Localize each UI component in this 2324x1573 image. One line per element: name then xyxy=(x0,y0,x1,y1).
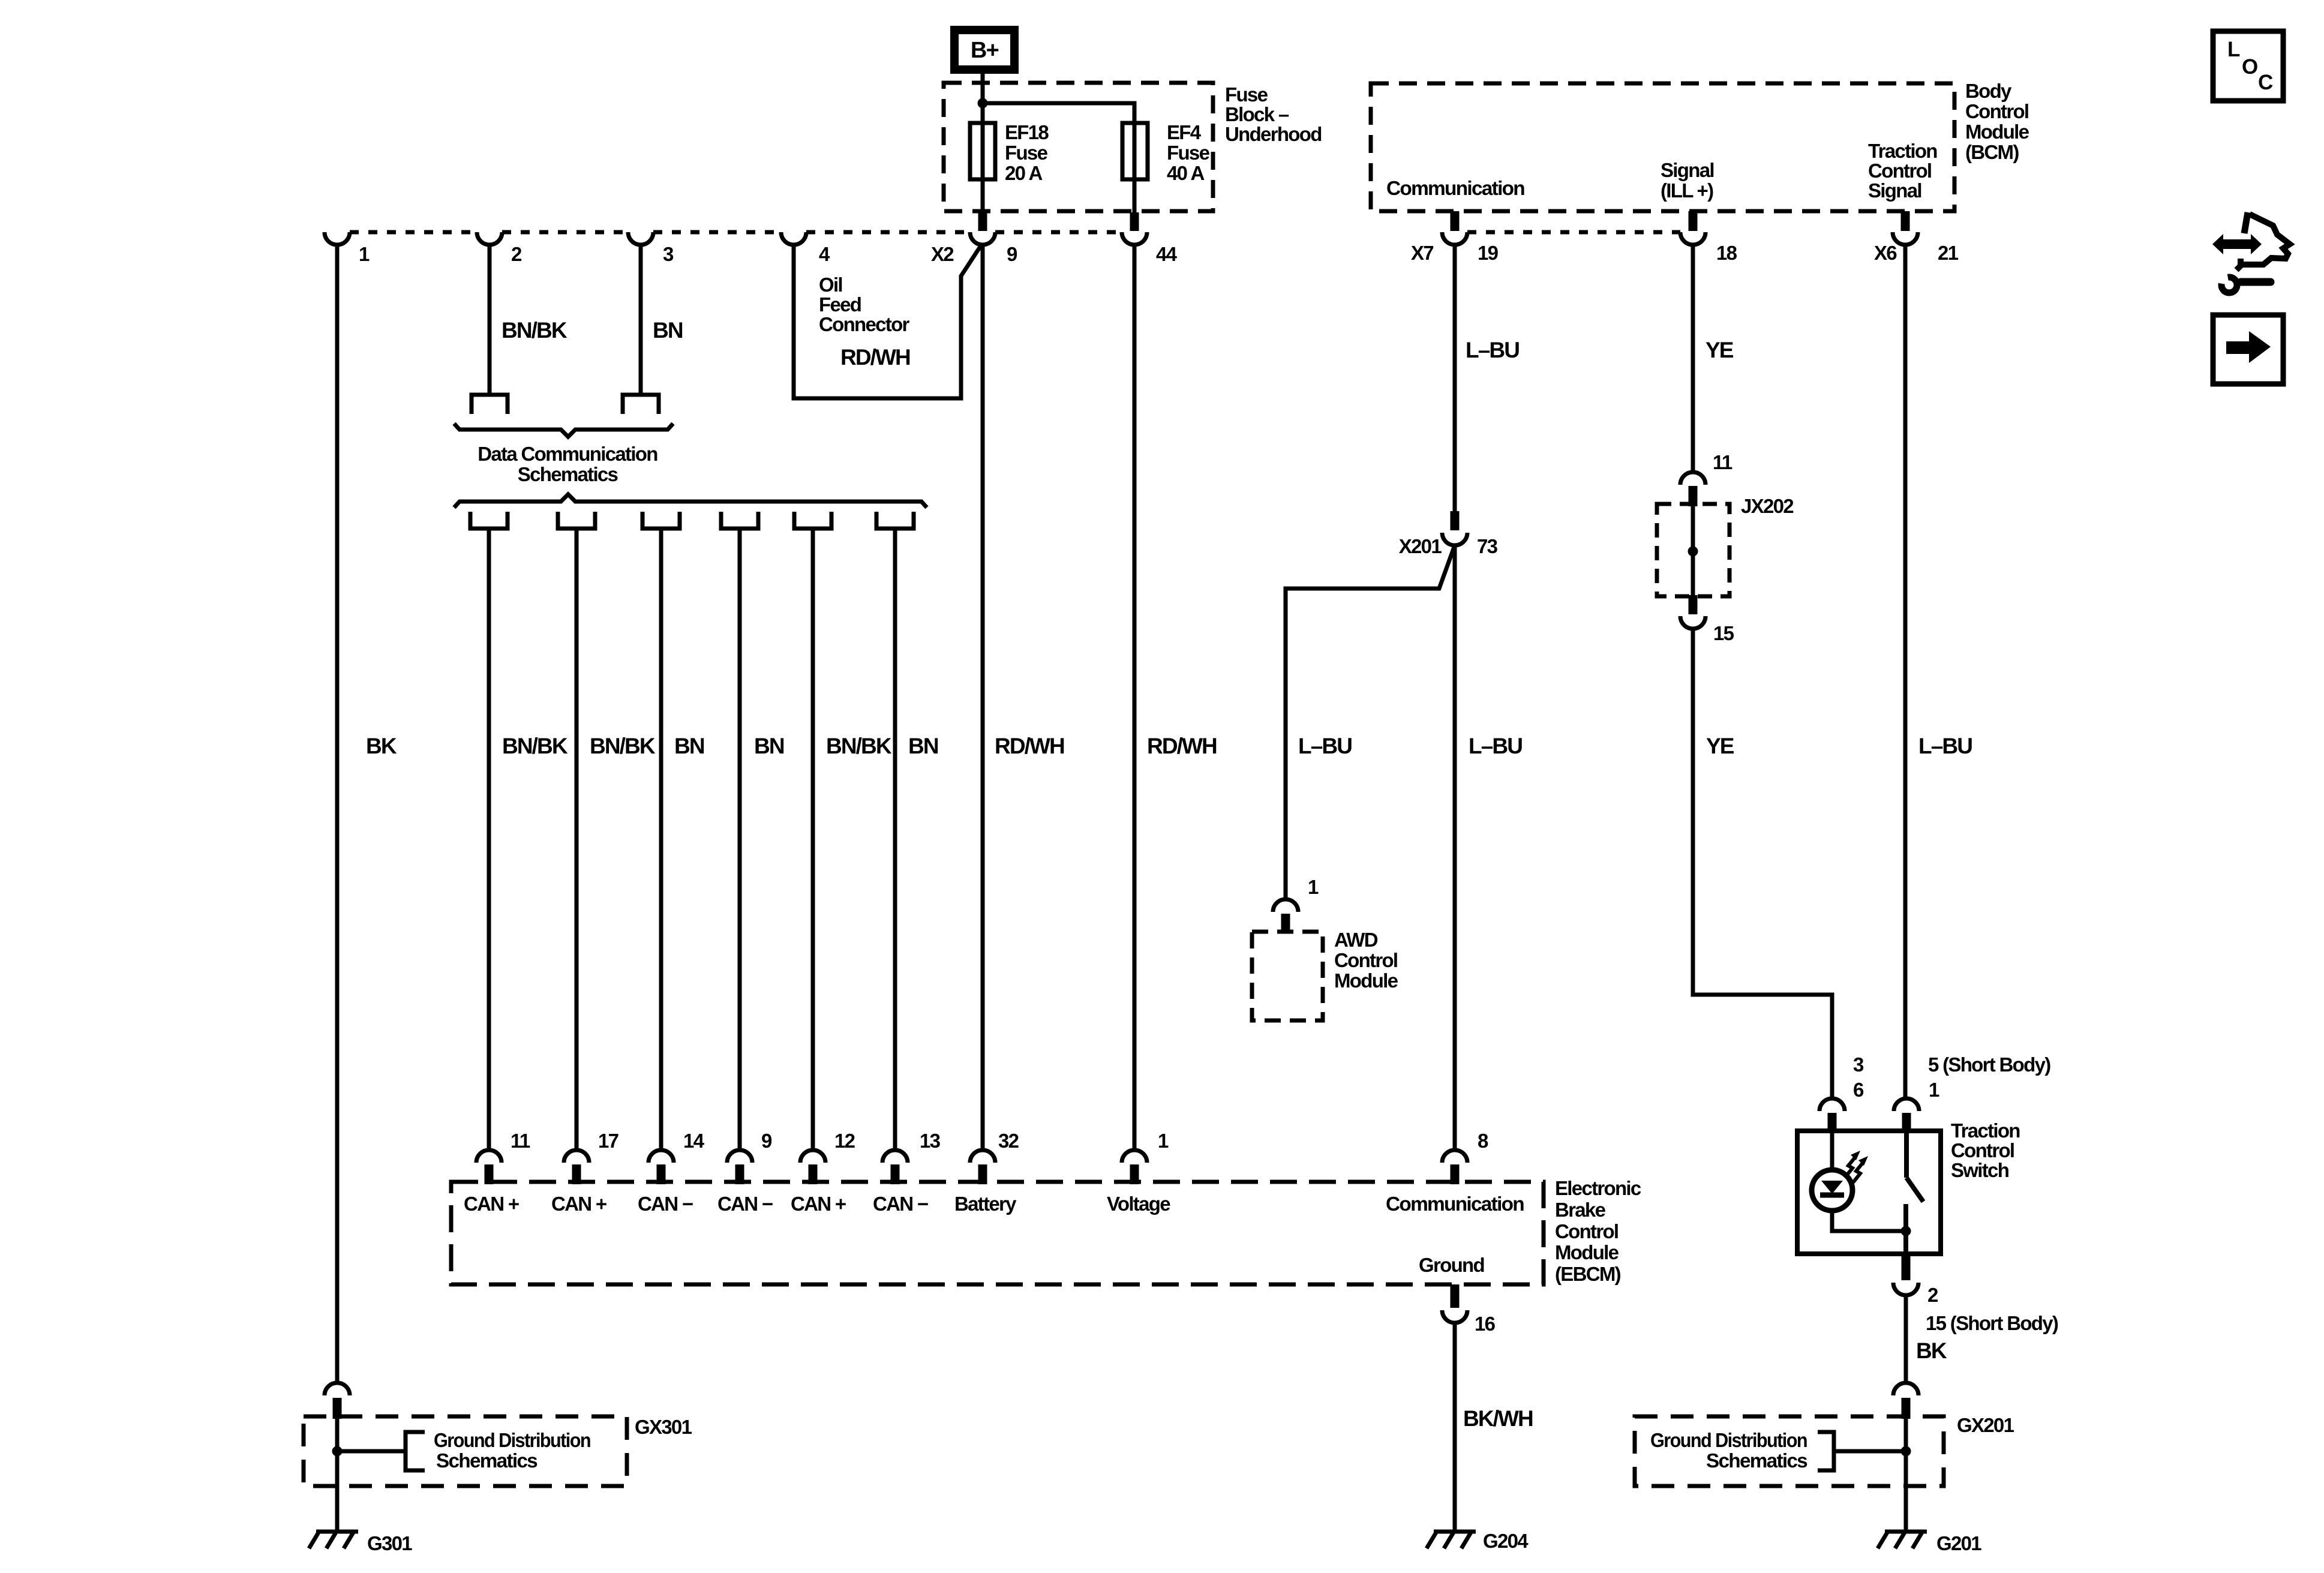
svg-text:BN/BK: BN/BK xyxy=(826,734,892,758)
switch contact blade xyxy=(1904,1131,1909,1178)
pin stub JX202 top xyxy=(1689,486,1698,506)
wire L-BU branch to AWD module xyxy=(1286,545,1455,899)
wire EF4 fuse to connector 9 xyxy=(1133,123,1137,231)
terminal lug CAN wire 17 xyxy=(558,512,595,529)
terminal lug CAN wire 9 xyxy=(721,512,758,529)
svg-text:16: 16 xyxy=(1475,1313,1496,1335)
node GX301 splice xyxy=(332,1446,343,1457)
svg-text:5 (Short Body): 5 (Short Body) xyxy=(1928,1053,2050,1076)
ground distribution GX301 dashed box xyxy=(304,1416,627,1486)
svg-text:X201: X201 xyxy=(1399,535,1442,557)
svg-text:3: 3 xyxy=(1853,1053,1864,1076)
svg-text:Schematics: Schematics xyxy=(518,463,618,485)
svg-text:BN: BN xyxy=(653,318,683,343)
wire BN to EBCM pin 9 xyxy=(738,529,742,1150)
svg-text:Ground: Ground xyxy=(1419,1254,1484,1276)
connector terminal 18 xyxy=(1680,232,1706,245)
pin stub GX301 xyxy=(333,1398,342,1419)
wire BN/BK pin2 to terminal xyxy=(488,245,492,395)
reference bracket GX301 xyxy=(406,1432,425,1470)
pin stub EBCM 11 xyxy=(485,1164,494,1184)
terminal lug wire3 xyxy=(623,395,659,414)
svg-text:EF18: EF18 xyxy=(1005,121,1049,143)
svg-text:BN: BN xyxy=(754,734,784,758)
terminal lug wire2 xyxy=(472,395,508,414)
svg-text:Ground Distribution: Ground Distribution xyxy=(434,1429,590,1451)
label data communication schematics xyxy=(478,443,657,485)
svg-text:Fuse: Fuse xyxy=(1167,142,1210,164)
svg-text:Block –: Block – xyxy=(1225,103,1289,125)
svg-text:11: 11 xyxy=(1713,451,1733,473)
svg-text:20 A: 20 A xyxy=(1005,162,1043,184)
pin stub EBCM 9 xyxy=(735,1164,744,1184)
connector terminal EBCM pin 17 xyxy=(564,1150,589,1163)
connector X201 terminal 73 xyxy=(1442,533,1467,545)
connector terminal switch 5-1 xyxy=(1894,1098,1919,1111)
svg-text:AWD: AWD xyxy=(1334,929,1378,951)
svg-text:(ILL +): (ILL +) xyxy=(1661,179,1713,202)
svg-text:18: 18 xyxy=(1716,242,1737,264)
label ground distribution schematics right xyxy=(1650,1429,1807,1472)
svg-text:BN/BK: BN/BK xyxy=(502,734,568,758)
svg-text:X6: X6 xyxy=(1874,242,1897,264)
connector terminal GX201 xyxy=(1893,1383,1918,1395)
svg-text:17: 17 xyxy=(598,1130,618,1152)
wire BN to EBCM pin 14 xyxy=(659,529,663,1150)
wire L-BU X201 to EBCM pin8 xyxy=(1453,545,1457,1150)
svg-text:Fuse: Fuse xyxy=(1005,142,1048,164)
svg-text:CAN −: CAN − xyxy=(717,1193,773,1215)
svg-text:G201: G201 xyxy=(1936,1532,1981,1554)
svg-text:12: 12 xyxy=(834,1130,855,1152)
svg-text:Feed: Feed xyxy=(819,293,861,316)
svg-text:Control: Control xyxy=(1555,1220,1618,1242)
svg-text:BN/BK: BN/BK xyxy=(502,318,568,343)
module connector dashed line pins 1-44 xyxy=(350,230,477,235)
pin stub EBCM 12 xyxy=(809,1164,818,1184)
svg-text:(BCM): (BCM) xyxy=(1965,141,2019,163)
LED light arrows xyxy=(1845,1151,1868,1182)
svg-text:Oil: Oil xyxy=(819,274,842,296)
wire YE pin18 to JX202 xyxy=(1691,245,1695,472)
wire RD/WH connector 44 to EBCM voltage xyxy=(1133,245,1137,1150)
body control module dashed box xyxy=(1371,83,1954,211)
ground distribution GX201 dashed box xyxy=(1635,1416,1944,1486)
svg-text:Module: Module xyxy=(1965,121,2029,143)
labels EBCM pin functions xyxy=(464,1193,1524,1215)
brace data communication lower xyxy=(454,494,927,508)
terminal lug CAN wire 13 xyxy=(876,512,914,529)
svg-text:Control: Control xyxy=(1951,1139,2014,1161)
svg-text:BK: BK xyxy=(366,734,397,758)
svg-text:JX202: JX202 xyxy=(1741,495,1794,517)
svg-text:Control: Control xyxy=(1965,100,2028,122)
wire L-BU pin21 to switch xyxy=(1903,245,1908,1098)
icon vehicle outline with arrow and wrench xyxy=(2212,212,2290,293)
svg-text:X2: X2 xyxy=(931,243,954,265)
svg-text:6: 6 xyxy=(1853,1079,1864,1101)
labels EBCM pin numbers xyxy=(511,1130,1488,1152)
wire junction to EF18 fuse xyxy=(981,103,985,231)
svg-text:19: 19 xyxy=(1478,242,1499,264)
svg-text:Module: Module xyxy=(1555,1241,1619,1263)
svg-text:Schematics: Schematics xyxy=(436,1449,537,1472)
pin stub EBCM 17 xyxy=(572,1164,581,1184)
wire YE JX202 to traction switch xyxy=(1693,629,1832,1098)
svg-text:BK/WH: BK/WH xyxy=(1463,1406,1533,1431)
wire switch contact to node xyxy=(1903,1204,1908,1254)
connector terminal EBCM pin 9 xyxy=(727,1150,752,1163)
connector terminal GX301 xyxy=(325,1383,350,1395)
wire L-BU pin19 to X201 xyxy=(1453,245,1457,513)
svg-text:Traction: Traction xyxy=(1951,1119,2020,1142)
svg-text:32: 32 xyxy=(998,1130,1019,1152)
svg-text:21: 21 xyxy=(1938,242,1959,264)
svg-text:Connector: Connector xyxy=(819,313,910,335)
svg-text:YE: YE xyxy=(1706,734,1734,758)
wire inside JX202 xyxy=(1691,505,1695,596)
svg-text:BN: BN xyxy=(674,734,704,758)
wire BK switch to GX201 xyxy=(1904,1296,1908,1383)
svg-text:YE: YE xyxy=(1706,338,1734,362)
terminal lug CAN wire 12 xyxy=(794,512,831,529)
svg-text:Switch: Switch xyxy=(1951,1159,2009,1181)
pin stub switch right xyxy=(1902,1113,1911,1133)
svg-text:14: 14 xyxy=(683,1130,705,1152)
svg-text:CAN +: CAN + xyxy=(791,1193,846,1215)
AWD control module dashed box xyxy=(1252,932,1323,1020)
pin stub JX202 bottom xyxy=(1689,595,1698,614)
svg-text:(EBCM): (EBCM) xyxy=(1555,1263,1621,1285)
svg-text:1: 1 xyxy=(359,243,370,265)
power feed B+ box xyxy=(954,30,1014,70)
svg-text:RD/WH: RD/WH xyxy=(995,734,1064,758)
brace data communication upper xyxy=(454,424,673,437)
svg-text:CAN −: CAN − xyxy=(638,1193,693,1215)
connector terminal EBCM pin 1 xyxy=(1122,1150,1147,1163)
svg-text:RD/WH: RD/WH xyxy=(840,345,910,370)
icon LOC box xyxy=(2213,31,2283,101)
svg-text:44: 44 xyxy=(1156,243,1178,265)
svg-text:X7: X7 xyxy=(1411,242,1433,264)
svg-text:Control: Control xyxy=(1334,949,1397,971)
pin stub X7-19 xyxy=(1451,211,1460,231)
wire RD/WH connector 9 to EBCM battery xyxy=(981,245,985,1150)
node JX202 splice xyxy=(1688,547,1698,557)
svg-text:G301: G301 xyxy=(367,1532,412,1554)
wire BN pin3 to terminal xyxy=(639,245,643,395)
terminal lug CAN wire 14 xyxy=(642,512,680,529)
connector terminal 4 xyxy=(781,232,806,245)
svg-text:Ground Distribution: Ground Distribution xyxy=(1650,1429,1807,1451)
svg-text:4: 4 xyxy=(819,243,830,265)
wire RD/WH pin4 to connector 9 xyxy=(794,245,981,398)
svg-text:GX201: GX201 xyxy=(1957,1414,2014,1436)
svg-text:Body: Body xyxy=(1965,80,2012,102)
pin stub EBCM 8 xyxy=(1451,1164,1460,1184)
svg-text:Brake: Brake xyxy=(1555,1199,1606,1221)
wire BK/WH to G204 xyxy=(1453,1323,1457,1532)
connector terminal EBCM pin 12 xyxy=(800,1150,825,1163)
pin stub 44 xyxy=(1130,212,1139,231)
svg-text:BN: BN xyxy=(908,734,938,758)
junction block JX202 dashed box xyxy=(1657,504,1730,596)
label AWD control module xyxy=(1334,929,1398,992)
pin stub EBCM 14 xyxy=(657,1164,666,1184)
svg-text:1: 1 xyxy=(1929,1079,1939,1101)
connector terminal EBCM pin16 xyxy=(1442,1310,1467,1323)
svg-text:BN/BK: BN/BK xyxy=(590,734,656,758)
pin stub X6-21 xyxy=(1901,211,1910,231)
svg-text:CAN −: CAN − xyxy=(873,1193,928,1215)
node switch output xyxy=(1901,1226,1911,1236)
svg-text:Signal: Signal xyxy=(1868,179,1921,202)
svg-text:15 (Short Body): 15 (Short Body) xyxy=(1926,1312,2058,1334)
svg-text:RD/WH: RD/WH xyxy=(1147,734,1217,758)
pin stub EBCM 32 xyxy=(978,1164,987,1184)
connector terminal 44 xyxy=(1122,232,1147,245)
connector terminal switch 3-6 xyxy=(1819,1098,1845,1111)
connector terminal EBCM pin 11 xyxy=(476,1150,502,1163)
svg-text:2: 2 xyxy=(511,243,522,265)
pin stub 18 xyxy=(1689,211,1698,231)
connector terminal EBCM pin 13 xyxy=(882,1150,908,1163)
label electronic brake control module xyxy=(1555,1177,1641,1285)
svg-text:Fuse: Fuse xyxy=(1225,83,1268,106)
pin stub switch left xyxy=(1828,1113,1837,1133)
svg-text:G204: G204 xyxy=(1483,1530,1529,1552)
connector terminal EBCM pin 8 xyxy=(1442,1150,1467,1163)
svg-text:2: 2 xyxy=(1927,1284,1938,1306)
connector terminal JX202 pin11 xyxy=(1680,472,1706,485)
electronic brake control module dashed box xyxy=(451,1182,1544,1284)
svg-text:Data Communication: Data Communication xyxy=(478,443,657,465)
svg-text:BK: BK xyxy=(1916,1338,1947,1363)
pin stub EBCM 1 xyxy=(1130,1164,1139,1184)
svg-text:CAN +: CAN + xyxy=(551,1193,606,1215)
reference bracket GX201 xyxy=(1818,1432,1834,1470)
svg-text:Schematics: Schematics xyxy=(1706,1449,1807,1472)
wire B+ to junction xyxy=(981,74,985,103)
svg-text:9: 9 xyxy=(761,1130,772,1152)
label ground distribution schematics left xyxy=(434,1429,590,1472)
svg-text:1: 1 xyxy=(1158,1130,1169,1152)
wire BN/BK to EBCM pin 11 xyxy=(487,529,491,1150)
pin stub EBCM 13 xyxy=(891,1164,900,1184)
svg-text:L–BU: L–BU xyxy=(1918,734,1972,758)
svg-text:3: 3 xyxy=(663,243,674,265)
wire BN/BK to EBCM pin 12 xyxy=(811,529,815,1150)
wire GX301 to G301 xyxy=(335,1486,340,1532)
wire BK pin1 down to GX301 xyxy=(335,245,340,1383)
label oil feed connector xyxy=(819,274,910,335)
LED indicator lamp xyxy=(1812,1170,1852,1211)
connector terminal X6 21 xyxy=(1893,232,1918,245)
svg-text:Control: Control xyxy=(1868,160,1931,182)
svg-text:Module: Module xyxy=(1334,969,1398,992)
connector terminal 1 xyxy=(325,232,350,245)
traction control switch box xyxy=(1797,1131,1941,1254)
node GX201 splice xyxy=(1901,1446,1911,1457)
connector terminal JX202 pin15 xyxy=(1680,616,1706,629)
connector terminal EBCM pin 14 xyxy=(648,1150,674,1163)
svg-text:L–BU: L–BU xyxy=(1466,338,1519,362)
module connector dashed line pins 19-18 xyxy=(1467,230,1680,235)
svg-text:8: 8 xyxy=(1478,1130,1488,1152)
pin stub X2-9 xyxy=(978,212,987,231)
svg-text:CAN +: CAN + xyxy=(464,1193,519,1215)
svg-text:L–BU: L–BU xyxy=(1469,734,1522,758)
wire inside GX301 xyxy=(335,1416,340,1486)
wire inside GX201 xyxy=(1904,1416,1908,1486)
svg-text:9: 9 xyxy=(1007,243,1017,265)
connector terminal switch pin2 xyxy=(1893,1283,1918,1295)
svg-text:C: C xyxy=(2258,71,2273,94)
wire LED to switch node xyxy=(1832,1209,1906,1231)
node splice below B+ xyxy=(978,98,988,109)
svg-text:Communication: Communication xyxy=(1386,177,1525,199)
connector terminal X7 19 xyxy=(1442,232,1467,245)
svg-text:EF4: EF4 xyxy=(1167,121,1202,143)
pin stub EBCM 16 xyxy=(1451,1284,1460,1308)
fuse EF4 40A xyxy=(1122,121,1210,184)
ground G201 xyxy=(1885,1530,1927,1534)
svg-text:40 A: 40 A xyxy=(1167,162,1205,184)
svg-text:Signal: Signal xyxy=(1661,159,1714,181)
pin stub AWD xyxy=(1281,914,1290,933)
svg-text:Traction: Traction xyxy=(1868,140,1937,162)
label body control module BCM xyxy=(1965,80,2029,163)
svg-text:O: O xyxy=(2242,55,2257,79)
ground G204 xyxy=(1434,1530,1476,1534)
label traction control switch xyxy=(1951,1119,2020,1181)
pin stub switch pin2 xyxy=(1902,1254,1911,1280)
svg-text:B+: B+ xyxy=(971,38,999,63)
icon forward arrow box xyxy=(2213,315,2283,384)
svg-text:Battery: Battery xyxy=(954,1193,1017,1215)
svg-text:11: 11 xyxy=(511,1130,530,1152)
svg-text:Voltage: Voltage xyxy=(1107,1193,1170,1215)
connector X201 pin stub xyxy=(1451,511,1460,530)
svg-text:Electronic: Electronic xyxy=(1555,1177,1641,1199)
svg-text:Communication: Communication xyxy=(1386,1193,1524,1215)
fuse block underhood dashed box xyxy=(944,83,1322,211)
connector terminal X2 9 xyxy=(970,232,995,245)
wire switch to LED xyxy=(1830,1131,1834,1171)
terminal lug CAN wire 11 xyxy=(470,512,508,529)
svg-text:L: L xyxy=(2227,38,2240,61)
pin stub GX201 xyxy=(1902,1398,1911,1419)
connector terminal 3 xyxy=(628,232,653,245)
connector terminal EBCM pin 32 xyxy=(970,1150,995,1163)
wire GX201 splice to reference xyxy=(1834,1449,1906,1454)
connector terminal 2 xyxy=(477,232,502,245)
fuse EF18 20A xyxy=(970,121,1049,184)
svg-text:13: 13 xyxy=(920,1130,941,1152)
wire BN to EBCM pin 13 xyxy=(893,529,897,1150)
svg-text:1: 1 xyxy=(1308,876,1319,898)
wire junction to EF4 fuse top xyxy=(983,103,1134,123)
connector terminal AWD pin1 xyxy=(1273,899,1298,912)
svg-text:GX301: GX301 xyxy=(635,1416,692,1438)
wire GX201 to G201 xyxy=(1904,1486,1908,1532)
svg-text:15: 15 xyxy=(1713,622,1734,644)
svg-text:L–BU: L–BU xyxy=(1298,734,1352,758)
wire GX301 splice to reference xyxy=(337,1449,406,1454)
svg-text:Underhood: Underhood xyxy=(1225,123,1322,145)
wire BN/BK to EBCM pin 17 xyxy=(575,529,579,1150)
svg-text:73: 73 xyxy=(1477,535,1498,557)
ground G301 xyxy=(316,1530,358,1534)
